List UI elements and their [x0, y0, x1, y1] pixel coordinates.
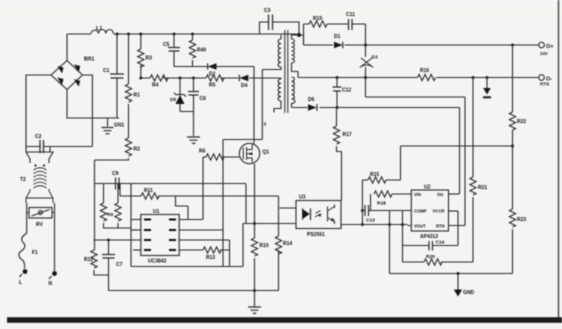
resistor R20 loop: [403, 254, 474, 265]
zener diode D3: [360, 45, 378, 97]
wire feedback line y196: [120, 184, 279, 197]
wire feedback y97: [366, 97, 466, 226]
svg-text:RTN: RTN: [540, 82, 549, 87]
svg-text:RV: RV: [36, 222, 44, 228]
svg-text:D1: D1: [334, 34, 341, 40]
wire choke to input legs: [27, 203, 55, 271]
wire secondary ground rail: [390, 273, 513, 275]
svg-text:C11: C11: [346, 12, 355, 18]
border frame right: [558, 0, 560, 320]
resistor R9 timing: [107, 184, 121, 229]
wire x402 riser: [402, 211, 404, 263]
wire feedback tap y146: [401, 145, 513, 147]
diode D1 output rectifier: [334, 34, 343, 48]
svg-text:R18: R18: [377, 201, 386, 207]
svg-text:VIN: VIN: [414, 192, 421, 197]
wire top rail from bridge to transformer: [67, 33, 297, 35]
svg-text:L: L: [19, 280, 22, 286]
svg-text:R5: R5: [209, 83, 216, 89]
svg-text:UC3842: UC3842: [148, 259, 167, 265]
svg-text:R21: R21: [478, 185, 487, 191]
svg-text:C5: C5: [163, 42, 170, 48]
capacitor C12 bias: [333, 78, 352, 108]
svg-text:R16: R16: [420, 68, 429, 74]
terminal output negative: [539, 75, 553, 87]
wire Vcc bias line: [141, 77, 281, 79]
svg-text:RTN: RTN: [436, 224, 445, 229]
wire U2 pin3 right: [449, 225, 466, 227]
choke winding: [20, 168, 47, 188]
capacitor C11 snubber: [346, 12, 355, 30]
svg-text:R9: R9: [107, 212, 113, 218]
svg-text:R10: R10: [260, 243, 269, 249]
wire bridge left AC lead: [26, 75, 51, 152]
capacitor C6: [188, 78, 206, 112]
resistor R11: [141, 188, 159, 199]
capacitor C1: [103, 34, 124, 118]
svg-text:D4: D4: [241, 83, 248, 89]
resistor R13 on pin 5: [131, 224, 243, 267]
wire U1 pin 6: [179, 239, 229, 241]
svg-text:C9: C9: [112, 171, 119, 177]
svg-text:C2: C2: [35, 134, 42, 140]
svg-text:C12: C12: [342, 88, 351, 94]
svg-text:R2: R2: [134, 147, 141, 153]
wire x362 riser: [361, 180, 363, 225]
wire output return line: [298, 77, 539, 79]
wire bridge top lead: [66, 34, 68, 61]
svg-text:R23: R23: [517, 217, 526, 223]
svg-text:U2: U2: [424, 185, 431, 191]
svg-text:R12: R12: [84, 257, 93, 263]
wire opto anode stub: [280, 207, 297, 209]
wire U2 pin2 right: [449, 210, 459, 212]
earth ground main: [248, 307, 261, 313]
resistor R6 gate: [199, 149, 239, 161]
resistor R23 divider bottom: [509, 209, 526, 274]
svg-text:C3: C3: [264, 8, 271, 14]
wire gate riser to PWM out: [202, 157, 204, 220]
wire x131 riser: [130, 184, 132, 267]
AC terminal N: [49, 271, 57, 287]
resistor R3 startup: [138, 34, 152, 78]
wire bridge right AC lead: [83, 75, 93, 147]
primary snubber loop wire: [260, 22, 300, 35]
svg-text:R17: R17: [343, 132, 352, 138]
resistor R40 clamp: [189, 34, 206, 67]
svg-text:OU: OU: [437, 192, 443, 197]
resistor R17 opto feed: [333, 108, 351, 201]
wire U2 pin stubs left: [408, 194, 412, 226]
node junction dots on top rail: [116, 33, 195, 36]
resistor R12: [84, 250, 109, 275]
resistor R8 timing: [100, 203, 106, 221]
wire secondary output line: [300, 35, 539, 45]
transformer T1 secondary winding upper: [292, 35, 304, 78]
common-mode choke T2 bobbin top: [26, 147, 53, 167]
capacitor C13: [362, 205, 407, 224]
wire secondary snubber branch: [304, 24, 366, 45]
svg-text:R22: R22: [517, 119, 526, 125]
svg-text:COMP: COMP: [414, 209, 427, 214]
capacitor C14 comp loop: [403, 211, 459, 251]
resistor R4 bias: [150, 75, 168, 89]
resistor R15: [362, 146, 400, 183]
svg-text:R19: R19: [313, 16, 322, 22]
node dots secondary: [336, 44, 515, 110]
node dots opto line: [361, 209, 404, 226]
svg-text:O+: O+: [546, 44, 554, 50]
RT/CT network wire box: [104, 184, 132, 229]
wire U1 pin 7 vcc: [179, 229, 223, 231]
wire zener-cap join: [180, 112, 194, 137]
wire jog to pin8: [176, 196, 189, 220]
op-amp U2 error amplifier box: [411, 185, 448, 241]
wire U1 left pin 3: [94, 239, 141, 241]
svg-text:D5: D5: [170, 97, 176, 103]
svg-text:R4: R4: [152, 83, 159, 89]
inductor L1: [91, 30, 113, 34]
line filter X-capacitor C2: [26, 134, 92, 153]
svg-text:D3: D3: [372, 55, 378, 61]
svg-text:C14: C14: [436, 240, 445, 246]
border frame bottom bar: [7, 317, 562, 323]
resistor R14: [275, 196, 292, 291]
capacitor C9 timing: [112, 171, 119, 190]
transformer T1 aux winding lower-left: [274, 78, 281, 113]
resistor R2 (lower of stacked pair): [95, 138, 141, 160]
transformer T1 core: [285, 30, 288, 113]
svg-text:R6: R6: [199, 149, 206, 155]
wire U1 pin 8 to gate riser: [179, 219, 203, 221]
svg-text:PS2561: PS2561: [307, 232, 325, 238]
node dots source line: [253, 222, 256, 292]
resistor R16 on return: [418, 68, 436, 81]
wire drain risers: [223, 67, 262, 144]
svg-text:VOUT: VOUT: [414, 224, 426, 229]
wire U1 left pin 2: [131, 229, 141, 231]
svg-text:C13: C13: [366, 218, 375, 224]
wire left rail x95: [94, 160, 96, 250]
svg-text:F1: F1: [32, 250, 38, 256]
earth ground below C1: [102, 118, 125, 134]
wire clamp line to drain: [174, 66, 254, 68]
ground arrow secondary return: [483, 78, 491, 98]
svg-text:BR1: BR1: [84, 57, 94, 63]
capacitor C5 clamp: [163, 34, 180, 67]
wire primary ground rail: [109, 290, 279, 292]
svg-text:R15: R15: [370, 172, 379, 178]
wire U1 left pin 1: [131, 219, 141, 221]
resistor R21 divider upper: [470, 78, 487, 263]
resistor R19 snubber: [309, 16, 327, 27]
svg-text:C1: C1: [103, 68, 110, 74]
transistor Q1 MOSFET: [239, 143, 269, 163]
capacitor C7: [102, 239, 123, 291]
resistor R5 bias: [206, 75, 224, 89]
svg-text:C7: C7: [116, 262, 123, 268]
node dots on Vcc line: [139, 77, 195, 80]
svg-text:R14: R14: [283, 241, 292, 247]
svg-text:R3: R3: [146, 56, 153, 62]
diode D4 bias: [239, 75, 248, 89]
wire bridge bottom lead to primary return: [67, 90, 119, 119]
capacitor C3 snubber: [264, 8, 273, 30]
diode D2 clamp: [208, 63, 217, 77]
bridge rectifier BR1: [51, 57, 94, 90]
svg-text:R20: R20: [426, 254, 435, 260]
optocoupler U3: [296, 195, 341, 239]
wire U1 left pin 4: [133, 249, 141, 251]
earth ground for zener cluster: [187, 137, 200, 143]
op-amp U1 PWM controller box: [141, 209, 179, 265]
resistor R1 (upper of stacked pair): [125, 34, 140, 138]
varistor RV1: [27, 208, 55, 229]
wire opto drive line: [243, 184, 296, 224]
wire bias secondary line: [292, 108, 460, 195]
choke bobbin bottom: [26, 189, 53, 203]
svg-text:R13: R13: [206, 255, 215, 261]
zener diode D5: [170, 78, 186, 112]
svg-text:Q1: Q1: [263, 150, 270, 156]
svg-text:VCCR: VCCR: [433, 209, 445, 214]
svg-text:R11: R11: [144, 188, 153, 194]
transformer T1 primary winding: [262, 35, 281, 70]
svg-text:T2: T2: [20, 177, 26, 183]
resistor R10 current sense: [251, 238, 268, 307]
svg-text:L1: L1: [96, 26, 102, 32]
node junction at transformer top: [297, 33, 301, 37]
wire source lead down: [254, 164, 256, 238]
wire vcc riser x223: [222, 140, 224, 267]
transformer T1 secondary winding lower: [292, 77, 295, 108]
svg-text:GND: GND: [463, 290, 475, 296]
ground GND arrow: [454, 272, 475, 297]
svg-text:N: N: [49, 281, 53, 287]
svg-text:D6: D6: [308, 97, 315, 103]
svg-text:C6: C6: [200, 96, 207, 102]
resistor R18: [371, 191, 408, 211]
svg-text:U1: U1: [153, 209, 160, 215]
AC terminal L: [19, 264, 27, 286]
terminal output positive: [539, 42, 554, 56]
wire box left riser: [389, 211, 391, 274]
fuse F1: [19, 233, 38, 264]
svg-text:3: 3: [264, 122, 267, 128]
resistor R22 divider top: [509, 45, 526, 209]
svg-text:AP4313: AP4313: [420, 234, 438, 240]
svg-text:R40: R40: [197, 48, 206, 54]
svg-text:GN1: GN1: [114, 123, 125, 129]
svg-text:U3: U3: [299, 195, 306, 201]
svg-text:24V: 24V: [540, 51, 548, 56]
svg-text:R1: R1: [134, 93, 141, 99]
wire mid band y184: [95, 183, 247, 185]
wire U2 pin1 right to bias: [449, 193, 460, 195]
diode D6 bias: [308, 97, 317, 111]
wire opto emitter line to error amp: [341, 224, 408, 226]
